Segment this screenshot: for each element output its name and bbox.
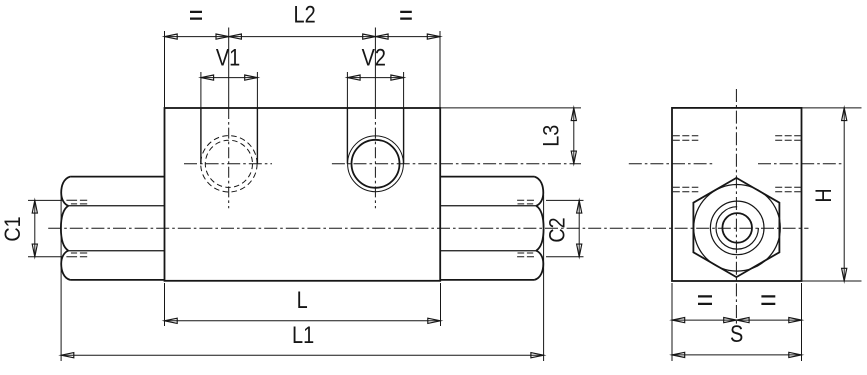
hidden port lines upper left xyxy=(673,136,699,141)
svg-text:L1: L1 xyxy=(292,321,314,348)
dimension line H xyxy=(843,108,845,281)
dimension line C2 xyxy=(578,200,580,256)
left hex plug upper facet line xyxy=(68,205,164,207)
dimension line C1 xyxy=(34,200,36,256)
extension line V2 axis up xyxy=(374,28,376,109)
right hex plug bottom edge xyxy=(440,279,534,281)
extension line right body edge up xyxy=(439,31,441,108)
left hex plug lower facet line xyxy=(68,250,164,252)
port V1 hidden thread circle inner xyxy=(205,140,252,187)
side view port level centerline left segment xyxy=(629,163,714,165)
right hex plug rounded end cap xyxy=(534,177,543,280)
top chain dimension line =,L2,= xyxy=(165,36,441,38)
svg-text:V2: V2 xyxy=(362,44,386,71)
port V1 vertical centerline xyxy=(228,108,230,208)
left hex plug rounded end cap xyxy=(61,177,70,280)
svg-text:C2: C2 xyxy=(545,217,569,242)
port V1 bore walls xyxy=(201,108,258,164)
side view port level centerline right segment xyxy=(758,163,844,165)
dimension line L3 xyxy=(573,108,575,164)
port V1 horizontal centerline xyxy=(184,163,272,165)
left plug thread runout dashes lower xyxy=(66,253,87,257)
extension lines for C1 xyxy=(28,200,62,256)
right hex plug lower facet line xyxy=(440,250,536,252)
dimension line V2 width xyxy=(347,77,403,79)
svg-text:C1: C1 xyxy=(1,216,25,241)
left hex plug top edge xyxy=(70,176,164,178)
port V2 thread circle outer xyxy=(348,136,404,192)
hex inscribed chamfer circle xyxy=(694,185,781,272)
hidden port lines upper right xyxy=(775,136,801,141)
extension lines V2 width xyxy=(347,72,403,108)
extension line left body edge up xyxy=(164,31,166,108)
dimension line V1 width xyxy=(201,77,258,79)
svg-text:L: L xyxy=(297,286,308,313)
right hex plug upper facet line xyxy=(440,205,536,207)
plug bore circle xyxy=(722,213,752,243)
extension lines V1 width xyxy=(201,72,258,108)
extension lines for L below body xyxy=(165,283,441,326)
right hex plug top edge xyxy=(440,176,534,178)
internal thread 3/4 arc xyxy=(716,207,758,249)
plug counterbore circle xyxy=(710,201,764,255)
chain dimension line equal halves xyxy=(672,319,802,321)
label = right bottom side view xyxy=(761,296,775,304)
extension line V1 axis up xyxy=(228,28,230,109)
svg-text:L2: L2 xyxy=(294,1,316,28)
svg-text:S: S xyxy=(730,320,743,347)
extension line top edge for L3 xyxy=(440,107,581,109)
extension lines for H xyxy=(802,108,862,281)
side view vertical centerline xyxy=(735,89,737,324)
left plug thread runout dashes upper xyxy=(66,200,87,204)
hidden port lines lower left xyxy=(673,187,699,192)
port V2 horizontal centerline extending to L3 extension xyxy=(332,163,581,165)
port V2 vertical centerline xyxy=(374,108,376,208)
dimension line L1 xyxy=(61,354,543,356)
port V1 hidden thread circle outer xyxy=(201,136,257,192)
svg-text:H: H xyxy=(812,188,836,202)
label = left top xyxy=(190,12,202,19)
svg-text:L3: L3 xyxy=(540,125,564,147)
right plug thread runout dashes lower xyxy=(517,253,534,257)
extension lines below side view xyxy=(672,283,802,361)
extension lines for C2 xyxy=(546,200,584,256)
label = left bottom side view xyxy=(698,296,712,304)
label = right top xyxy=(400,12,412,19)
port V2 bore circle inner xyxy=(352,140,400,188)
right plug thread runout dashes upper xyxy=(517,200,534,204)
hex plug hexagon xyxy=(693,178,779,277)
port V2 bore walls xyxy=(347,108,403,164)
extension lines for L1 xyxy=(61,195,543,361)
dimension line L xyxy=(165,320,441,322)
side view outline xyxy=(672,108,802,281)
hidden port lines lower right xyxy=(775,187,801,192)
left hex plug bottom edge xyxy=(70,279,164,281)
body front view outline xyxy=(165,108,441,281)
svg-text:V1: V1 xyxy=(216,44,240,71)
dimension line S xyxy=(672,354,802,356)
main horizontal centerline xyxy=(48,227,808,229)
